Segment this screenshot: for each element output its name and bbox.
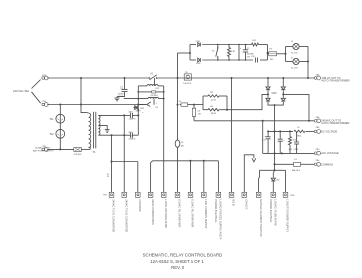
svg-text:LINE COMMON SUPPLY: LINE COMMON SUPPLY [204, 199, 208, 229]
wire AC line2 bus [47, 104, 146, 106]
relay box left edge [137, 86, 139, 99]
svg-text:XL-194: XL-194 [291, 52, 298, 54]
wire amp supply right [81, 148, 90, 150]
svg-text:W2 B: W2 B [232, 199, 236, 206]
node Rbox out [226, 109, 228, 111]
wire secondary mid tap [98, 125, 107, 129]
svg-text:+DC VOLTAGE: +DC VOLTAGE [321, 151, 339, 155]
wire x177 mid [177, 105, 179, 140]
capacitor C15 [255, 58, 257, 63]
wire rail1 drop [137, 162, 139, 193]
wire C3 to bus [193, 116, 195, 120]
resistor R2 [228, 45, 230, 48]
node C14 top [279, 130, 281, 132]
wire lampbox left edge [285, 47, 287, 62]
svg-text:EXTRAC FILAMENT TRANS 6V: EXTRAC FILAMENT TRANS 6V [259, 199, 263, 237]
node bridge bottom [274, 104, 276, 106]
wire lamp chain top [59, 105, 61, 150]
terminal pin 9 [216, 192, 221, 197]
relay contact K1 [150, 75, 157, 80]
resistor R10 [74, 148, 82, 152]
wire input diagonal to TB2-2 [32, 92, 41, 103]
wire F1 to Rbox [194, 104, 203, 106]
wire Rbox right edge [226, 96, 228, 110]
node bridge left mid [267, 93, 269, 95]
svg-text:6.3VAC FIL XFMR PWR: 6.3VAC FIL XFMR PWR [178, 199, 182, 227]
svg-text:XL-194: XL-194 [291, 67, 298, 69]
terminal pin 1 [109, 192, 114, 197]
terminal pin 3 [136, 192, 141, 197]
wire bus x111 [111, 135, 113, 192]
wire rail1 [112, 161, 138, 163]
diode CR6 [198, 43, 201, 47]
svg-text:240 VAC 46A: 240 VAC 46A [13, 89, 29, 93]
jumper D1 [294, 162, 301, 166]
wire x262 drop [262, 121, 264, 154]
wire amp supply [47, 148, 74, 150]
wire lamp I4 branch [286, 46, 293, 48]
relay coil K2 top [138, 85, 147, 87]
svg-text:12A-9152 S, SHEET 1 OF 1: 12A-9152 S, SHEET 1 OF 1 [150, 259, 204, 264]
svg-text:CR1: CR1 [140, 108, 145, 110]
svg-text:6.3VAC FIL XFMR PWB: 6.3VAC FIL XFMR PWB [191, 199, 195, 227]
lamp E1 [56, 114, 65, 123]
svg-text:COMMON: COMMON [321, 162, 333, 166]
capacitor C2 [122, 88, 128, 90]
terminal TB2-1 [42, 77, 45, 80]
capacitor C3 [193, 105, 195, 109]
node line1-x81 [80, 77, 82, 79]
wire line1 to T1 primary top [81, 78, 87, 113]
resistor R4 [203, 109, 208, 111]
wire lampbox to line1 [307, 62, 309, 79]
svg-text:BAL BLU: BAL BLU [292, 169, 301, 172]
capacitor C1 [245, 45, 247, 50]
svg-text:COM BUS: COM BUS [138, 199, 142, 211]
relay coil K2 bottom branch [124, 98, 148, 100]
wire bridge left leg3 [268, 102, 275, 105]
terminal pin 8 [202, 192, 207, 197]
wire rail2 drop1 [190, 161, 192, 193]
terminal pin 13 [271, 192, 276, 197]
svg-text:AUTO-TRANSFORMER: AUTO-TRANSFORMER [322, 79, 350, 83]
relay contact K3 arrow [147, 102, 151, 105]
wire bridge right leg3 [275, 102, 284, 105]
resistor R13 [289, 131, 291, 136]
svg-text:86.8K: 86.8K [211, 113, 217, 115]
node bridge right mid [282, 93, 284, 95]
node line2-x82 [80, 104, 82, 106]
lamp I5 [293, 58, 299, 64]
terminal pin 2 [122, 192, 127, 197]
lamp I4 [293, 43, 299, 49]
wire sub drop2 bottom [272, 182, 274, 193]
svg-text:AMP POWER SUPPLY: AMP POWER SUPPLY [33, 149, 54, 152]
node line1-bridgeL [267, 77, 269, 79]
wire lamp I5 branch [286, 61, 293, 63]
svg-text:GRID COMMON BUS: GRID COMMON BUS [151, 199, 155, 225]
wire primary top lead [87, 112, 89, 114]
wire common rail [275, 163, 294, 165]
node line1-x177 [177, 77, 179, 79]
svg-text:LOUNG 7A 5/B AV PW: LOUNG 7A 5/B AV PW [274, 199, 278, 226]
chassis ground arrow [252, 158, 256, 162]
wire K3 contact stub [153, 99, 155, 105]
terminal pin 7 [188, 192, 193, 197]
node rail1 left [111, 161, 113, 163]
node CR1 cluster [137, 104, 139, 106]
wire cluster vertical [137, 99, 139, 136]
wire x177 top [177, 53, 179, 105]
wire AC2 to bridge [227, 94, 268, 109]
wire secondary bottom tap [98, 134, 124, 136]
node rail2 d2 [203, 160, 205, 162]
svg-text:LOAD TO POWER SUPPLY: LOAD TO POWER SUPPLY [286, 199, 290, 232]
transformer T1 core [93, 112, 95, 149]
svg-text:2W RES: 2W RES [150, 95, 158, 97]
diode CR1 [135, 106, 138, 110]
capacitor C16 [296, 131, 298, 141]
wire K2 feed stub [154, 78, 156, 86]
wire rect right edge [267, 45, 269, 61]
lamp E2 [56, 129, 65, 138]
wire bus x231 [231, 78, 233, 192]
transformer T1 secondary [98, 115, 100, 135]
wire relay box drop [163, 99, 165, 193]
svg-text:47R BLK: 47R BLK [74, 154, 83, 156]
node F1 out [193, 104, 195, 106]
wire input diagonal to TB2-1 [32, 80, 41, 89]
svg-text:.1M: .1M [197, 114, 201, 116]
terminal pin 5 [161, 192, 166, 197]
wire sub drop1 [258, 170, 261, 192]
wire cluster to arrow [138, 104, 147, 106]
wire bridge AC2 right [283, 94, 309, 120]
node x177 F1 junction [177, 104, 179, 106]
wire x177 bottom [177, 147, 179, 192]
node line1-bridgeR [282, 77, 284, 79]
wire 240vac bus [194, 120, 314, 122]
node rect left [189, 52, 191, 54]
node relay box corners [137, 91, 139, 93]
node +DC d2 [281, 152, 283, 154]
ground secondary mid tap [105, 129, 110, 131]
svg-text:1/2W: 1/2W [294, 149, 299, 151]
node DCv1 [274, 130, 276, 132]
svg-text:1000MF: 1000MF [247, 53, 255, 55]
wire rect bottom branch [190, 59, 196, 61]
wire sub drop2 top [273, 170, 274, 173]
wire rect to F2 [268, 53, 269, 55]
svg-text:LOYAL 24V WDG XFMR: LOYAL 24V WDG XFMR [164, 199, 168, 228]
node C4 left [123, 114, 125, 116]
fuse F2 [269, 52, 277, 56]
diode CR1 wire [134, 107, 139, 109]
terminal TB3 [314, 152, 317, 155]
fuse F4 [175, 140, 180, 147]
svg-text:600V: 600V [118, 96, 123, 98]
lamp I6 [294, 130, 305, 132]
fuse F1 [180, 104, 182, 106]
svg-text:*E2: *E2 [50, 133, 55, 136]
node rail2 d1 [190, 160, 192, 162]
terminal pin 14 [283, 192, 288, 197]
svg-text:24VAC TO #1 CONVERTER: 24VAC TO #1 CONVERTER [112, 199, 116, 232]
wire chassis stub [244, 155, 254, 193]
diode CR9b [281, 87, 285, 90]
svg-text:14K BLK: 14K BLK [183, 83, 192, 85]
svg-text:*E1: *E1 [50, 118, 55, 121]
svg-text:CHAS G: CHAS G [245, 199, 249, 209]
svg-text:NE51: NE51 [297, 136, 303, 138]
wire DC minus vertical [274, 105, 276, 170]
resistor R3 [203, 95, 208, 97]
node common left [274, 163, 276, 165]
wire rail2 [151, 161, 219, 193]
node line1-x231 [231, 77, 233, 79]
node C13 top [267, 130, 269, 132]
wire secondary top tap [98, 114, 124, 116]
relay contact K3b [217, 45, 219, 49]
svg-text:CR4: CR4 [290, 195, 295, 197]
wire bridge right leg2 [282, 90, 284, 97]
relay box right edge [163, 86, 165, 99]
svg-text:AUTO-TRANSFORMER: AUTO-TRANSFORMER [321, 121, 349, 125]
wire primary bottom lead [89, 147, 91, 149]
wire rect top branch [190, 44, 196, 46]
wire rail2 drop2 [203, 161, 205, 193]
wire DC voltage rail [268, 130, 293, 132]
diode CR9a [266, 87, 270, 90]
node sub rail mid [274, 169, 276, 171]
terminal TB4-3 [314, 130, 317, 133]
diode CR9d [281, 98, 285, 101]
capacitor C5 [124, 134, 130, 136]
svg-text:DC VOLTAGE: DC VOLTAGE [321, 129, 338, 133]
resistor R6 mid branch [138, 91, 151, 93]
transformer T1 primary [89, 113, 91, 147]
svg-text:SCHEMATIC, RELAY CONTROL BOARD: SCHEMATIC, RELAY CONTROL BOARD [143, 253, 223, 258]
node line1-C2 [124, 77, 126, 79]
node line1-lamps [307, 77, 309, 79]
capacitor C13 [267, 131, 269, 136]
node amp supply x60 [59, 148, 61, 150]
svg-text:.56MFD: .56MFD [128, 118, 136, 120]
diode CR12 [271, 178, 275, 181]
wire Rbox left edge [202, 96, 204, 110]
wire bridge left leg [267, 78, 269, 86]
wire AC line1 bus right of K1 [157, 77, 315, 79]
terminal TB4-1 [314, 77, 317, 80]
node C5 left [123, 134, 125, 136]
terminal TB4-2 [314, 120, 317, 123]
wire rect feed [178, 52, 191, 54]
wire sub drop3 [285, 170, 287, 192]
wire F2 to lampbox [277, 53, 286, 55]
node R13 top [289, 130, 291, 132]
diode CR8 [198, 58, 201, 62]
svg-text:POWER B EXTRAL: POWER B EXTRAL [214, 199, 218, 223]
node C4 right [137, 114, 139, 116]
wire bridge left leg2 [267, 90, 269, 97]
wire bus x124 [123, 115, 125, 192]
svg-text:LOUNG FORCES SUPPLY AND P: LOUNG FORCES SUPPLY AND P [219, 199, 223, 239]
resistor R1 [252, 43, 259, 46]
wire +DC rail [263, 152, 315, 154]
terminal pin 6 [175, 192, 180, 197]
node 240vac bus x309 [308, 120, 310, 122]
diode CR9c [266, 98, 270, 101]
wire mid vertical x239 [238, 45, 240, 61]
node secondary bottom junction [111, 134, 113, 136]
terminal TB4-5 [314, 163, 317, 166]
terminal pin 4 [148, 192, 153, 197]
node +DC d1 [274, 152, 276, 154]
svg-text:41.5K: 41.5K [211, 99, 217, 101]
wire rect left edge [189, 45, 191, 61]
terminal pin 11 [242, 192, 247, 197]
wire rail2 drop3 [217, 161, 219, 193]
ground C2 [116, 97, 118, 98]
wire bridge right leg [282, 78, 284, 86]
wire C2 stub [124, 78, 126, 89]
terminal TB2-2 [42, 103, 45, 106]
svg-text:CR9: CR9 [272, 92, 277, 95]
node line2-x60 [59, 104, 61, 106]
node lampbox right [307, 61, 309, 63]
svg-text:CR8: CR8 [196, 63, 201, 65]
node lampbox left [285, 53, 287, 55]
svg-text:24VAC TO #2 CONVERTER: 24VAC TO #2 CONVERTER [124, 199, 128, 232]
node CR1 a-mark [137, 109, 139, 111]
terminal TB2-3 [42, 148, 45, 151]
resistor R5 block [184, 74, 191, 80]
wire lampbox right edge [307, 47, 309, 62]
capacitor C4 [124, 114, 130, 116]
svg-text:.56MFD: .56MFD [128, 138, 136, 140]
wire AC line1 bus [47, 77, 149, 79]
svg-text:POWER B EXTRAL: POWER B EXTRAL [269, 199, 273, 223]
node rect right [267, 52, 269, 54]
terminal pin 10 [229, 192, 234, 197]
wire C2 to ground [117, 92, 125, 97]
terminal pin 12 [256, 192, 261, 197]
capacitor C14 [279, 131, 281, 139]
wire sub rail [260, 169, 286, 171]
svg-text:REV. 0: REV. 0 [171, 265, 185, 270]
svg-text:4.3K: 4.3K [231, 51, 236, 53]
node x262 top [262, 120, 264, 122]
